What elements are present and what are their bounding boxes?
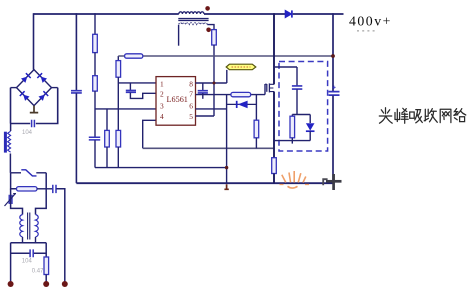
- wire zcd vertical to bus: [226, 95, 228, 184]
- bridge diode lower-right: [39, 91, 49, 101]
- svg-text:3: 3: [160, 101, 164, 110]
- plus mark C6: [332, 86, 335, 89]
- svg-text:5: 5: [189, 112, 193, 121]
- resistor R8 gate: [231, 92, 251, 96]
- diode D2 snubber: [306, 123, 315, 131]
- char xi: [410, 110, 423, 123]
- capacitor C9 input: [71, 91, 82, 93]
- ground tick: [224, 184, 228, 189]
- terminal dot right: [62, 281, 68, 287]
- wire gate riser: [264, 84, 266, 95]
- wire bottom link upper: [11, 242, 47, 244]
- wire C4 drop: [202, 83, 204, 90]
- resistor R2: [93, 76, 98, 91]
- wire R1-R2: [94, 53, 96, 76]
- wire resistor to terminal: [45, 275, 47, 284]
- resistor R4: [116, 61, 121, 78]
- wire CS line: [143, 147, 274, 149]
- wire left drop to bridge: [33, 13, 35, 69]
- bridge rectifier BR1 frame: [17, 70, 52, 106]
- resistor R3: [105, 130, 110, 147]
- wire snubber top tap: [274, 66, 297, 68]
- choke L2 core: [28, 213, 30, 240]
- char wang: [440, 109, 451, 122]
- wire R4 to pin1 node: [117, 77, 119, 130]
- junction node return: [225, 166, 228, 169]
- svg-text:6: 6: [189, 101, 193, 110]
- char feng: [395, 108, 408, 123]
- bridge diode upper-right: [37, 73, 47, 83]
- wire R2 to mult node: [94, 91, 96, 137]
- wire bridge box left edge: [10, 88, 12, 124]
- wire R13 bottom lead: [291, 138, 293, 144]
- dashed snubber box: [279, 62, 328, 152]
- wire filter-cap vertical bottom to bus: [75, 93, 77, 183]
- svg-text:0.47: 0.47: [32, 268, 44, 274]
- bridge minus lead and bar: [30, 106, 38, 113]
- wire pin4 stub: [143, 120, 156, 148]
- wire bridge left stub: [11, 87, 17, 89]
- capacitor C7 X-cap: [30, 249, 33, 257]
- wire snubber split: [292, 114, 310, 116]
- wire pin3 line: [95, 108, 156, 110]
- wire pin7 gate line: [196, 94, 266, 96]
- wire pin1 line: [118, 82, 156, 84]
- wire source vertical: [273, 92, 275, 158]
- wire output vertical bottom: [332, 96, 334, 184]
- wire lower return line: [95, 167, 227, 169]
- capacitor C8: [53, 185, 56, 193]
- bridge diode lower-left: [20, 91, 30, 101]
- wire box to inductor: [10, 124, 12, 132]
- bridge diode upper-left: [21, 73, 31, 83]
- wire left terminal drop: [10, 243, 12, 283]
- resistor R5: [116, 130, 121, 147]
- svg-text:104: 104: [22, 259, 33, 265]
- wire snubber bottom tap: [274, 140, 310, 142]
- transformer T1 secondary winding: [179, 23, 208, 25]
- resistor R12 source: [272, 158, 277, 174]
- wire comp zigzag to pin2: [130, 93, 156, 99]
- wire C2 bottom: [94, 140, 96, 167]
- resistor R11: [254, 120, 259, 138]
- inductor L1 core bar: [4, 132, 7, 153]
- resistor R6 horizontal: [125, 54, 143, 58]
- wire left down to choke: [11, 189, 23, 215]
- wire R5 bottom: [117, 147, 119, 168]
- wire drain vertical: [273, 13, 275, 84]
- wire R3 leg bottom: [106, 147, 108, 168]
- transistor Q1 mosfet: [265, 83, 274, 92]
- wire C8 to terminal: [56, 189, 64, 283]
- wire feedback vertical top corner: [117, 56, 119, 61]
- wire comp cap drop: [129, 83, 131, 90]
- svg-text:8: 8: [189, 79, 193, 88]
- wire C4 bottom: [202, 93, 204, 99]
- polarity dot secondary: [206, 28, 211, 33]
- resistor R7 aux: [212, 30, 217, 45]
- wire diode D3 line: [227, 103, 257, 105]
- wire tag riser: [226, 70, 228, 83]
- wire bottom link lower: [11, 252, 47, 254]
- wire D2 top lead: [309, 115, 311, 124]
- capacitor C3 comp: [126, 90, 136, 92]
- inductor L1 winding: [8, 131, 11, 152]
- label jianfeng-xishou-wangluo (spike absorption network): [379, 108, 466, 123]
- diode D1 boost: [285, 10, 292, 17]
- svg-text:2: 2: [160, 89, 164, 98]
- wire output vertical top: [332, 13, 334, 91]
- wire bridge box right edge: [36, 88, 58, 124]
- op-amp U1 L6561 body: [156, 77, 196, 126]
- capacitor C6 output: [329, 92, 340, 96]
- char jian: [379, 108, 392, 123]
- terminal dot left: [8, 281, 14, 287]
- wire top rail left: [34, 13, 179, 15]
- net highlight yellow tag: [226, 64, 256, 70]
- wire secondary right lead: [207, 25, 214, 30]
- capacitor C1 bridge: [32, 120, 35, 127]
- wire MOV line left: [11, 172, 21, 174]
- wire R13 top lead: [291, 115, 293, 117]
- wire top rail right: [204, 13, 285, 15]
- transformer T1 primary winding: [179, 12, 204, 14]
- diode D3: [237, 101, 248, 109]
- wire aux resistor to pin8 node: [213, 45, 215, 116]
- wire R line right: [37, 188, 52, 190]
- resistor R13 snubber: [290, 116, 295, 138]
- resistor R9 filter: [17, 187, 38, 191]
- polarity dot primary: [205, 6, 210, 11]
- wire diode to output node: [293, 13, 344, 15]
- wire snubber cap lead: [296, 67, 298, 86]
- wire secondary left lead: [178, 25, 180, 46]
- svg-text:L6561: L6561: [167, 95, 188, 104]
- wire inductor to MOV line: [9, 154, 11, 173]
- wire divider top: [94, 13, 96, 34]
- svg-text:7: 7: [189, 89, 193, 98]
- junction node pin8-aux: [213, 82, 216, 85]
- watermark cursor cross: [323, 174, 341, 190]
- svg-text:4: 4: [160, 112, 164, 121]
- wire D2 bottom lead: [309, 131, 311, 140]
- wire choke bottoms: [23, 237, 36, 243]
- svg-text:1: 1: [160, 79, 164, 88]
- wire source resistor to bus: [273, 174, 275, 184]
- char shou: [424, 109, 437, 123]
- wire ground bus bottom: [76, 182, 333, 184]
- wire R line left: [11, 173, 17, 189]
- wire C5 bottom: [296, 89, 298, 114]
- choke L2 right winding: [36, 215, 39, 237]
- capacitor C2: [89, 137, 100, 140]
- svg-text:400v+: 400v+: [349, 14, 392, 29]
- wire pin5 line: [196, 115, 215, 117]
- transformer T1 core: [178, 19, 208, 21]
- watermark orange rays: [280, 171, 310, 188]
- choke L2 left winding: [20, 215, 23, 237]
- capacitor C5 snubber: [292, 86, 302, 89]
- wire pin8 line: [196, 82, 227, 84]
- watermark gray dots: [357, 30, 377, 32]
- char luo: [454, 109, 466, 122]
- wire bridge right stub: [52, 87, 58, 89]
- wire pin6 line: [196, 108, 227, 110]
- wire R3 leg top: [106, 109, 108, 130]
- wire filter-cap vertical top: [75, 13, 77, 90]
- wire bridge box bottom left: [11, 123, 31, 125]
- varistor RV1: [21, 170, 36, 176]
- wire D3 right vertical: [255, 95, 257, 121]
- junction node vcc-output: [331, 54, 335, 58]
- wire right filter vertical: [36, 173, 47, 215]
- terminal dot middle: [43, 281, 49, 287]
- wire mid terminal drop: [45, 243, 47, 257]
- resistor R10 0.47: [44, 257, 49, 275]
- capacitor C4: [198, 91, 208, 93]
- wire MOV line right: [36, 172, 46, 174]
- wire R11 to CS: [255, 138, 257, 149]
- svg-text:104: 104: [22, 130, 33, 136]
- resistor R1: [93, 34, 98, 52]
- wire vcc line slate: [118, 55, 333, 57]
- thermistor RT1: [5, 194, 17, 206]
